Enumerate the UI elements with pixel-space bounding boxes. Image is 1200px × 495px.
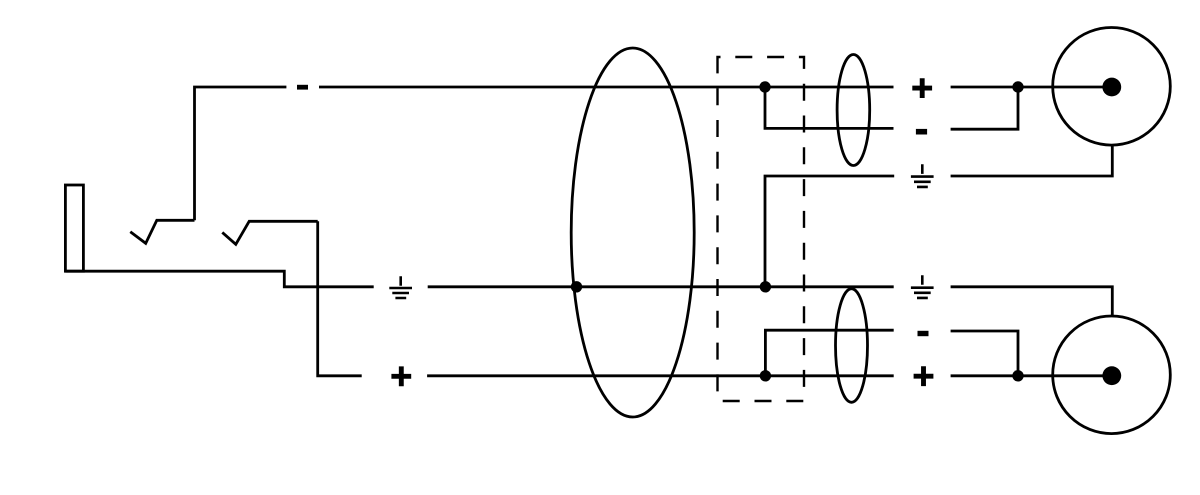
ground symbol (RCA2) [911,275,934,298]
wire RCA1 minus jumper [765,87,894,128]
RCA plug P2 center pin [1102,366,1121,385]
label: minus (RCA2) [918,331,929,336]
RCA2 cable shield ellipse [836,289,868,403]
wire RCA2 ground to shell [951,287,1113,316]
node: minus/plus tie RCA1 [759,81,770,92]
node: shield at cable entry [571,281,582,292]
node: plus tie RCA2 [760,370,771,381]
ground symbol (RCA1) [911,164,934,187]
wire RCA2 minus link [951,331,1018,376]
wire RCA1 ground to shield [765,176,894,287]
wire RCA1 ground to shell [951,145,1113,176]
wire RCA2 minus jumper [765,330,893,376]
wire tip to minus line [195,87,287,220]
label: plus (jack ring line) [391,366,411,386]
jack J1 plug body [65,185,83,271]
wire RCA1 minus link [951,87,1018,129]
RCA1 cable shield ellipse [837,55,870,166]
label: minus (RCA1) [916,129,927,135]
node: shield tie in splitter [760,281,771,292]
wire ring to plus line [318,221,362,375]
node: RCA1 pin tie [1012,81,1023,92]
jack J1 ring switch contact [222,221,317,244]
wire plus line to cable [427,374,894,377]
node: RCA2 pin tie [1012,370,1023,381]
wire RCA1 plus to pin [951,86,1112,89]
RCA plug P2 body [1053,316,1171,434]
label: plus (RCA2) [914,366,934,386]
wire shield line to cable [428,285,894,288]
label: minus (jack tip line) [297,85,308,90]
jack J1 tip switch contact [130,220,194,243]
splitter dashed box [718,57,805,401]
cable shield ellipse [571,48,694,417]
RCA plug P1 body [1053,28,1171,146]
wire minus line to cable [319,86,894,89]
label: plus (RCA1) [912,78,932,98]
RCA plug P1 center pin [1102,78,1121,97]
ground symbol (jack sleeve line) [389,276,412,298]
jack J1 sleeve wire [65,271,373,287]
wire RCA2 plus to pin [951,374,1112,377]
